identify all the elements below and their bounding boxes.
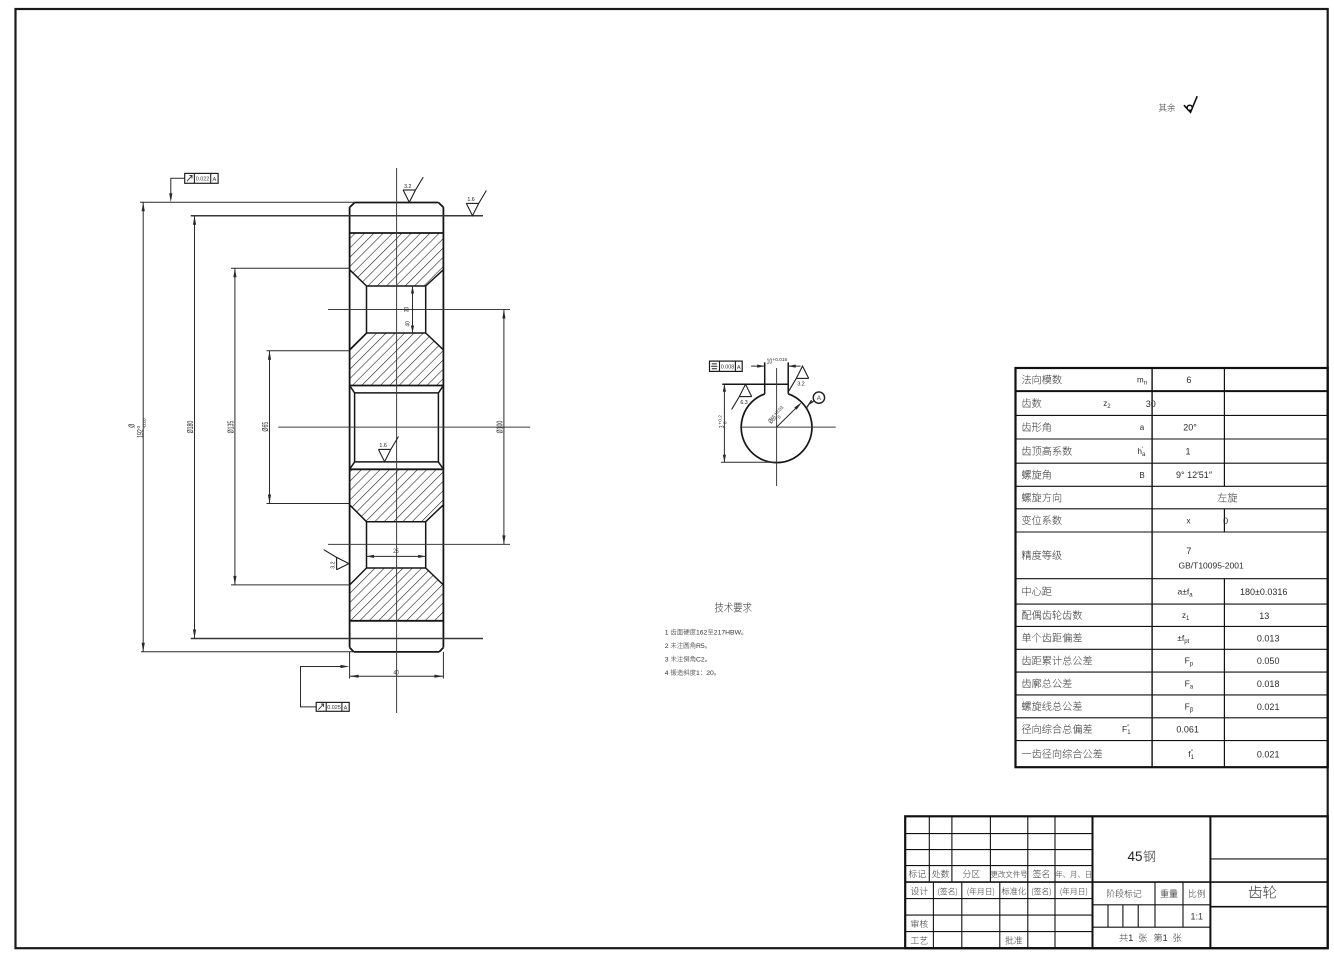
roughness 1.6 right of gear — [466, 191, 486, 216]
upper web window centerline — [328, 309, 510, 311]
svg-text:0.021: 0.021 — [1257, 749, 1280, 759]
keyway view bore circle — [741, 394, 812, 463]
gear root lines — [350, 233, 444, 621]
tech requirements title — [715, 602, 752, 612]
svg-text:162: 162 — [696, 630, 708, 637]
svg-text:1: 1 — [665, 630, 669, 637]
svg-text:180±0.0316: 180±0.0316 — [1240, 587, 1287, 597]
roughness 1.6 in bore — [378, 437, 398, 462]
svg-text:β: β — [1190, 707, 1194, 713]
dimension 3 keyway depth — [723, 384, 725, 462]
leader top tolerance — [171, 178, 185, 199]
svg-text:Ø: Ø — [129, 423, 137, 427]
svg-text:3: 3 — [665, 657, 669, 664]
dimension 25 lower window — [367, 555, 426, 557]
roughness 6.3 keyway — [732, 384, 752, 409]
svg-text:0.022: 0.022 — [196, 177, 210, 183]
dimension dia192 — [142, 202, 144, 651]
svg-text:40: 40 — [405, 321, 412, 326]
svg-text:20: 20 — [706, 670, 714, 677]
web window lower — [350, 505, 444, 585]
svg-text:40: 40 — [394, 670, 399, 677]
svg-text:0.050: 0.050 — [1257, 656, 1280, 666]
dimension 30/40 upper window — [412, 286, 414, 333]
svg-text:A: A — [344, 705, 348, 711]
gear outline tip edges walls chamfers — [350, 203, 444, 652]
svg-text:0.025: 0.025 — [327, 705, 341, 711]
svg-text:13: 13 — [1259, 611, 1269, 621]
title block row2 labels — [911, 887, 928, 895]
svg-text:0.008: 0.008 — [721, 365, 735, 371]
svg-text:B: B — [1139, 471, 1144, 480]
extension lines — [140, 201, 355, 203]
svg-text:': ' — [1142, 447, 1143, 453]
svg-text:+0.015: +0.015 — [772, 357, 787, 363]
svg-text:pt: pt — [1184, 639, 1189, 645]
svg-text:0: 0 — [723, 421, 729, 424]
svg-text:4: 4 — [665, 670, 669, 677]
svg-text:1:1: 1:1 — [1190, 912, 1203, 922]
keyway slot — [722, 362, 788, 394]
gear hatched hub section lower — [350, 469, 444, 521]
runout tolerance frame bottom — [316, 702, 349, 711]
sheet count — [1119, 933, 1127, 941]
svg-text:0.018: 0.018 — [1257, 679, 1280, 689]
datum A tick and circle — [806, 400, 814, 408]
svg-text:+0.2: +0.2 — [717, 415, 723, 425]
horizontal centerline — [278, 426, 530, 428]
pitch line top — [191, 215, 483, 217]
table row labels — [1022, 375, 1062, 385]
svg-text:1.6: 1.6 — [467, 197, 474, 203]
svg-text:20°: 20° — [1183, 423, 1197, 433]
svg-text:1: 1 — [1128, 933, 1133, 943]
svg-text:6.3: 6.3 — [740, 400, 747, 406]
svg-text:1.6: 1.6 — [379, 443, 386, 449]
vertical centerline — [396, 168, 398, 713]
svg-text:GB/T10095-2001: GB/T10095-2001 — [1178, 561, 1243, 571]
dimension dia65 — [269, 351, 271, 504]
svg-text:3.2: 3.2 — [797, 382, 804, 388]
pitch line bottom — [191, 638, 483, 640]
svg-text:2: 2 — [665, 643, 669, 650]
svg-text:n: n — [1144, 381, 1147, 387]
roughness 3.2 top — [403, 177, 423, 202]
roughness 3.2 left rotated — [324, 550, 349, 570]
stage weight scale — [1107, 889, 1141, 897]
svg-text:0.021: 0.021 — [1257, 702, 1280, 712]
svg-text:9° 12′51″: 9° 12′51″ — [1176, 470, 1213, 480]
svg-text:a±f: a±f — [1178, 586, 1190, 596]
svg-text:A: A — [737, 365, 741, 371]
svg-text:Ø65: Ø65 — [262, 422, 270, 432]
svg-text:Ø100: Ø100 — [496, 421, 504, 434]
parameter table grid — [1016, 368, 1328, 767]
svg-text:C2: C2 — [696, 657, 705, 664]
svg-text:6: 6 — [1186, 375, 1191, 385]
svg-text:1: 1 — [696, 670, 700, 677]
part name gear — [1249, 885, 1276, 898]
dia65 bore radius arrow — [777, 405, 800, 428]
svg-text:1: 1 — [1163, 933, 1168, 943]
svg-text:0.061: 0.061 — [1176, 725, 1199, 735]
svg-text:-0.07: -0.07 — [142, 417, 148, 428]
svg-text:7: 7 — [1186, 546, 1191, 556]
bore with chamfers — [350, 386, 444, 470]
lower web window centerline — [328, 543, 510, 545]
dimension dia135 — [234, 268, 236, 585]
keyway view centerlines — [776, 368, 778, 486]
title block other labels — [911, 920, 927, 928]
dimension dia100 — [503, 310, 505, 545]
svg-text:0: 0 — [1223, 516, 1228, 526]
svg-text:1: 1 — [1185, 447, 1190, 457]
svg-text:Ø135: Ø135 — [227, 421, 235, 434]
roughness 3.2 keyway — [789, 366, 809, 391]
symmetry tolerance frame — [710, 361, 743, 371]
web window upper — [350, 270, 444, 350]
svg-text:30: 30 — [1146, 399, 1156, 409]
svg-text:3.2: 3.2 — [404, 184, 411, 190]
leader bottom tolerance — [301, 667, 348, 707]
gear hatched hub section upper — [350, 333, 444, 386]
gear hatched rim section upper — [350, 233, 444, 286]
svg-text:a: a — [1140, 423, 1145, 432]
qiyu note — [1159, 103, 1175, 111]
svg-text:A: A — [213, 177, 217, 183]
gear hatched rim section lower — [350, 568, 444, 621]
svg-text:217HBW: 217HBW — [714, 630, 742, 637]
svg-text:0.013: 0.013 — [1257, 633, 1280, 643]
dimension 40 thickness — [350, 675, 444, 677]
svg-text:192: 192 — [137, 429, 145, 438]
dimension 10 keyway width — [751, 365, 801, 367]
svg-text:x: x — [1187, 516, 1191, 525]
svg-text:3.2: 3.2 — [330, 561, 336, 568]
title block row1 labels — [909, 870, 926, 878]
svg-text:45: 45 — [1128, 849, 1143, 864]
svg-text:A: A — [817, 395, 822, 402]
svg-text:Ø180: Ø180 — [187, 421, 195, 434]
svg-text:R5: R5 — [696, 643, 705, 650]
svg-text:30: 30 — [404, 307, 411, 312]
title block grid — [905, 816, 1327, 948]
dimension dia180 — [194, 216, 196, 639]
runout tolerance frame top — [185, 173, 218, 183]
svg-text:25: 25 — [393, 548, 398, 555]
